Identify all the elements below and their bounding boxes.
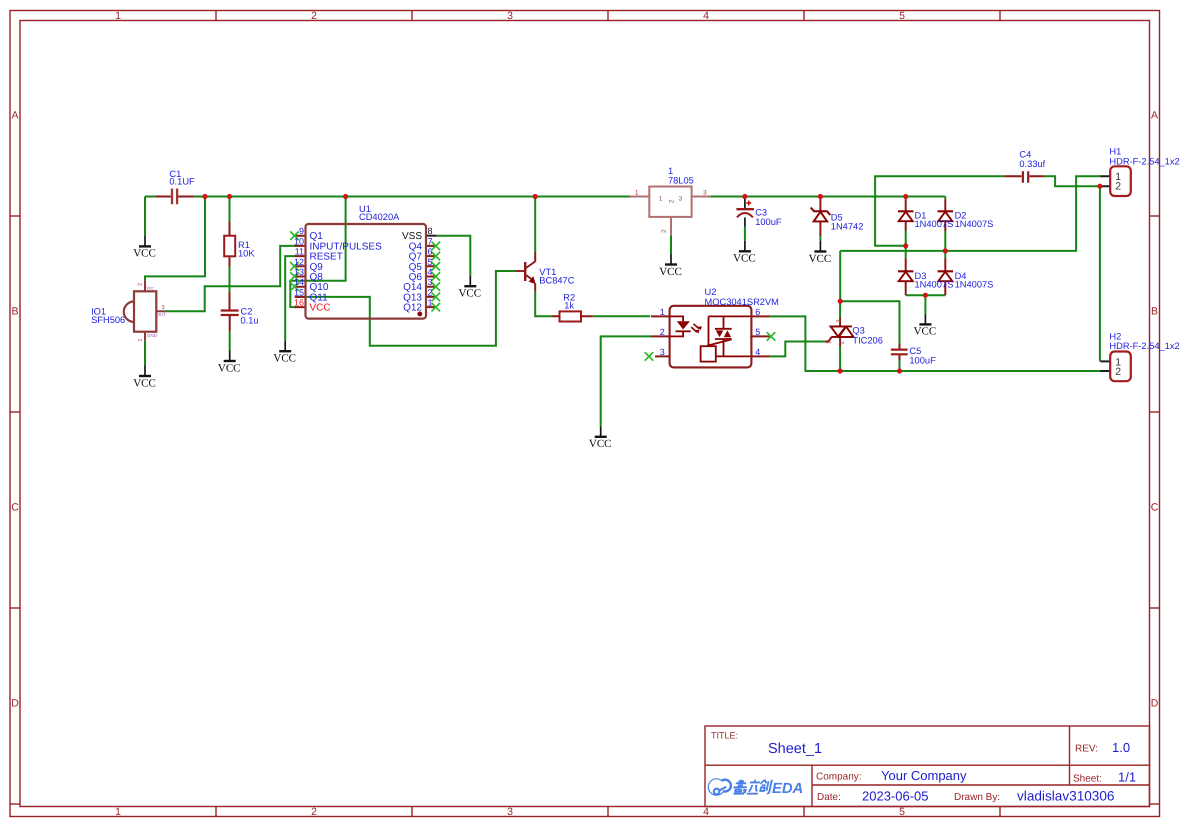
svg-text:1: 1 (428, 298, 433, 308)
svg-text:1/1: 1/1 (1118, 770, 1136, 785)
svg-text:Drawn By:: Drawn By: (954, 792, 1000, 803)
svg-text:HDR-F-2.54_1x2: HDR-F-2.54_1x2 (1109, 341, 1179, 351)
svg-text:2: 2 (668, 199, 675, 203)
svg-text:2023-06-05: 2023-06-05 (862, 789, 929, 804)
svg-text:5: 5 (755, 327, 760, 337)
svg-text:MOC3041SR2VM: MOC3041SR2VM (705, 297, 779, 307)
svg-text:0.1UF: 0.1UF (169, 176, 195, 186)
svg-text:12: 12 (294, 257, 304, 267)
svg-text:3: 3 (507, 10, 513, 22)
svg-text:1: 1 (659, 195, 663, 202)
svg-text:D: D (1151, 698, 1159, 710)
svg-text:C: C (11, 502, 19, 514)
svg-text:9: 9 (299, 226, 304, 236)
svg-text:EDA: EDA (772, 781, 803, 797)
svg-text:5: 5 (899, 806, 905, 818)
svg-text:1: 1 (115, 10, 121, 22)
svg-text:SFH506: SFH506 (91, 315, 125, 325)
svg-text:C: C (1151, 502, 1159, 514)
svg-text:2: 2 (835, 319, 842, 323)
svg-text:4: 4 (703, 10, 709, 22)
svg-text:A: A (11, 110, 18, 122)
svg-text:3: 3 (679, 195, 683, 202)
svg-text:1N4007S: 1N4007S (915, 219, 954, 229)
svg-text:4: 4 (428, 267, 433, 277)
svg-text:BC847C: BC847C (539, 276, 574, 286)
svg-text:U2: U2 (705, 287, 717, 297)
svg-text:TITLE:: TITLE: (711, 731, 738, 741)
svg-text:3: 3 (660, 347, 665, 357)
svg-text:3: 3 (507, 806, 513, 818)
svg-text:Company:: Company: (816, 772, 862, 783)
svg-text:vladislav310306: vladislav310306 (1017, 789, 1115, 804)
svg-text:2: 2 (660, 327, 665, 337)
svg-text:Vcc: Vcc (146, 285, 154, 290)
svg-text:H1: H1 (1109, 147, 1121, 157)
svg-text:13: 13 (294, 267, 304, 277)
svg-text:0.1u: 0.1u (241, 316, 259, 326)
svg-text:15: 15 (294, 287, 304, 297)
svg-text:1k: 1k (564, 301, 574, 311)
svg-text:1N4742: 1N4742 (831, 222, 864, 232)
svg-text:B: B (1151, 306, 1158, 318)
svg-text:CD4020A: CD4020A (359, 212, 400, 222)
svg-text:2: 2 (1115, 181, 1121, 193)
svg-text:3: 3 (162, 305, 165, 311)
svg-text:A: A (1151, 110, 1158, 122)
svg-text:1: 1 (660, 307, 665, 317)
svg-text:1.0: 1.0 (1112, 740, 1130, 755)
svg-text:2: 2 (138, 283, 144, 286)
svg-text:1: 1 (138, 339, 144, 342)
svg-text:3: 3 (428, 277, 433, 287)
svg-text:100uF: 100uF (909, 355, 936, 365)
svg-text:10K: 10K (238, 248, 255, 258)
svg-text:1N4007S: 1N4007S (955, 219, 994, 229)
svg-text:100uF: 100uF (755, 217, 782, 227)
svg-text:Sheet_1: Sheet_1 (768, 741, 822, 757)
svg-text:1N4007S: 1N4007S (955, 279, 994, 289)
svg-text:6: 6 (428, 247, 433, 257)
svg-text:3: 3 (703, 190, 707, 197)
svg-text:VCC: VCC (310, 303, 331, 314)
svg-text:2: 2 (428, 287, 433, 297)
svg-text:Sheet:: Sheet: (1073, 774, 1102, 785)
svg-text:1: 1 (115, 806, 121, 818)
svg-text:TIC206: TIC206 (852, 335, 883, 345)
svg-text:2: 2 (661, 229, 668, 233)
svg-text:4: 4 (703, 806, 709, 818)
svg-text:10: 10 (294, 236, 304, 246)
svg-text:11: 11 (295, 247, 304, 257)
svg-text:78L05: 78L05 (668, 175, 694, 185)
svg-text:1: 1 (635, 190, 639, 197)
svg-text:5: 5 (899, 10, 905, 22)
svg-text:HDR-F-2.54_1x2: HDR-F-2.54_1x2 (1109, 156, 1179, 166)
svg-text:16: 16 (294, 298, 304, 308)
svg-text:0.33uf: 0.33uf (1019, 159, 1045, 169)
svg-text:C4: C4 (1019, 149, 1031, 159)
svg-text:2: 2 (311, 806, 317, 818)
svg-text:6: 6 (755, 307, 760, 317)
svg-text:B: B (11, 306, 18, 318)
svg-text:4: 4 (755, 347, 760, 357)
svg-text:7: 7 (428, 236, 433, 246)
svg-text:1N4007S: 1N4007S (915, 279, 954, 289)
svg-text:Date:: Date: (817, 792, 841, 803)
svg-text:D: D (11, 698, 19, 710)
svg-text:Q3: Q3 (852, 326, 864, 336)
svg-text:Your Company: Your Company (881, 768, 967, 783)
svg-text:14: 14 (294, 277, 304, 287)
svg-text:GND: GND (147, 333, 158, 338)
svg-text:2: 2 (1115, 366, 1121, 378)
svg-text:5: 5 (428, 257, 433, 267)
svg-text:REV:: REV: (1075, 744, 1098, 755)
svg-text:OUT: OUT (157, 312, 167, 317)
svg-text:2: 2 (311, 10, 317, 22)
